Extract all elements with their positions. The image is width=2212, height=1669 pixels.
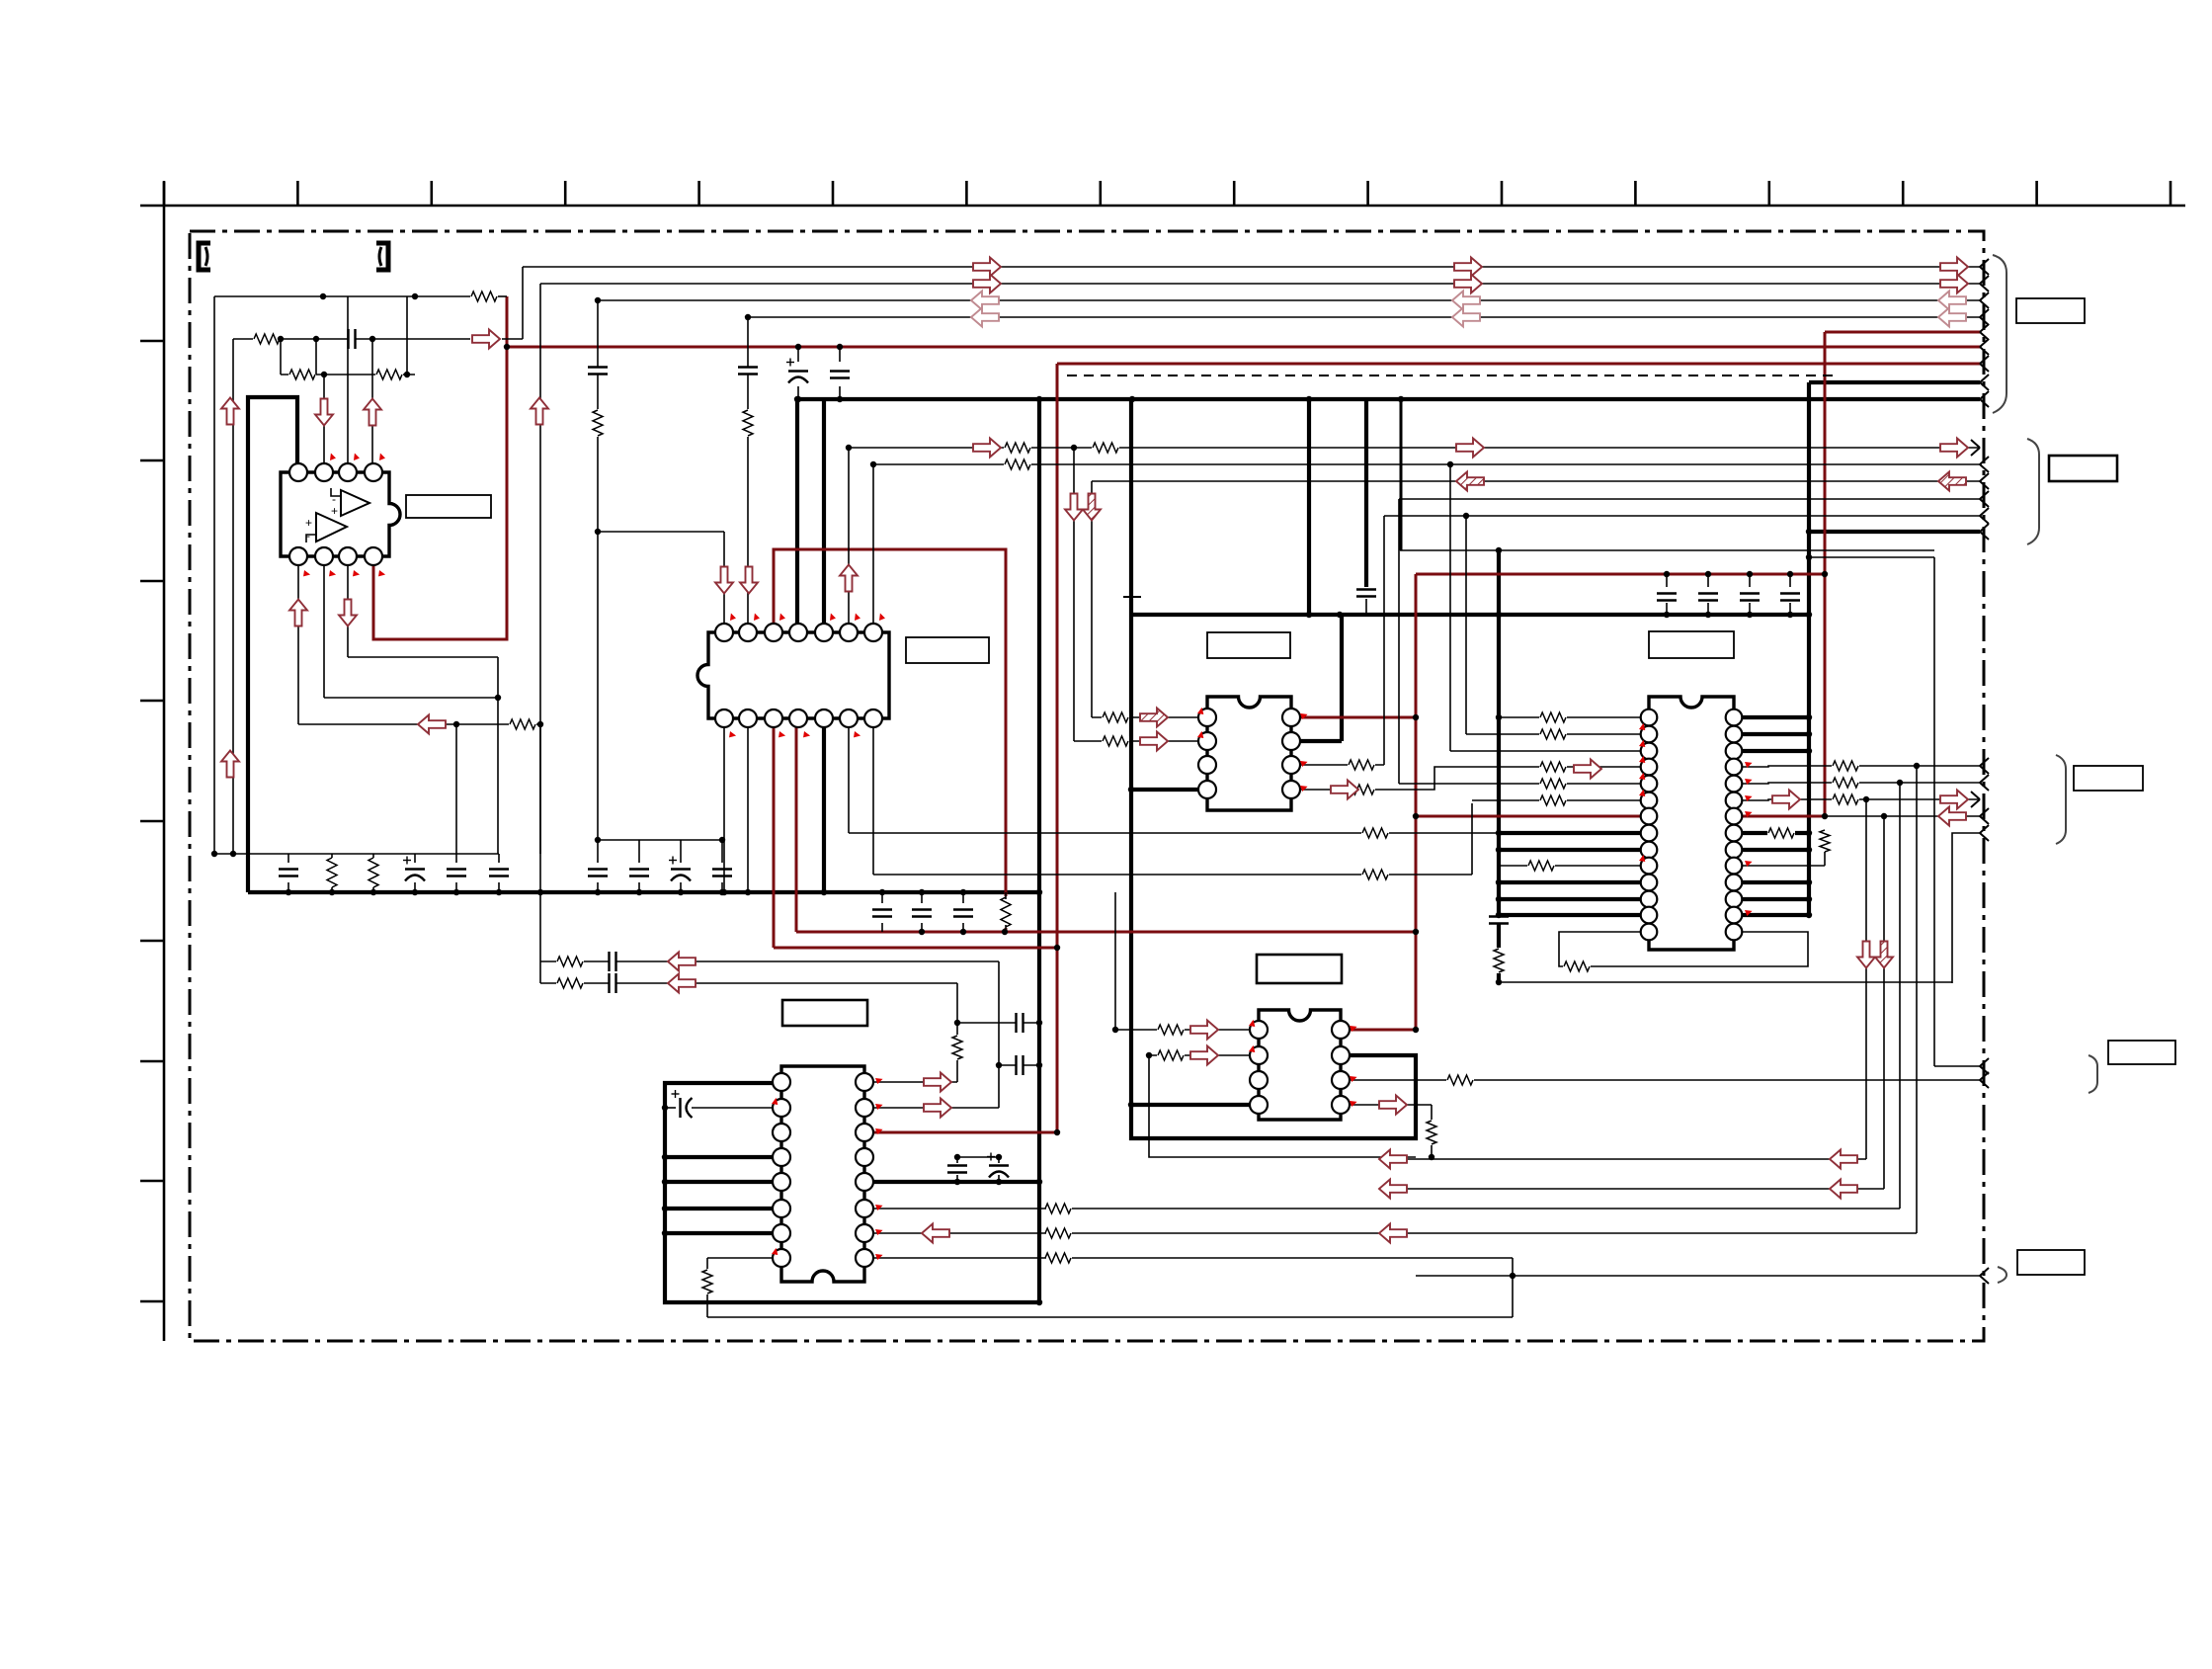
svg-text:+: + — [305, 516, 312, 530]
svg-text:+: + — [331, 504, 338, 518]
svg-text:-: - — [306, 529, 310, 542]
